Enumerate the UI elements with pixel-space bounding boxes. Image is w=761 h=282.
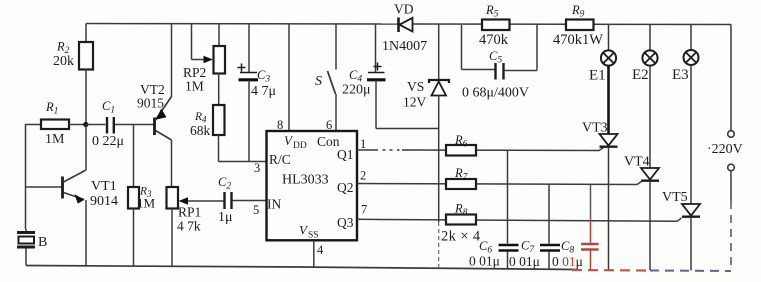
thyristor VT5 bbox=[662, 65, 700, 271]
resistor R3 1M bbox=[128, 125, 156, 267]
svg-text:4 7k: 4 7k bbox=[177, 219, 201, 234]
svg-text:C2: C2 bbox=[218, 175, 231, 192]
svg-text:4 7μ: 4 7μ bbox=[251, 84, 276, 99]
diode VD 1N4007 bbox=[382, 2, 427, 55]
potentiometer RP2 1M bbox=[183, 24, 225, 106]
svg-text:0 01μ: 0 01μ bbox=[469, 254, 500, 269]
svg-text:Q3: Q3 bbox=[337, 215, 354, 230]
wire Q1 to VT3 gate bbox=[357, 148, 604, 151]
svg-text:0 01μ: 0 01μ bbox=[552, 254, 583, 269]
svg-text:·220V: ·220V bbox=[707, 142, 743, 157]
pin 1 label bbox=[360, 137, 366, 151]
svg-text:2: 2 bbox=[360, 169, 366, 183]
thyristor VT3 bbox=[582, 66, 618, 270]
pin 2 label bbox=[360, 169, 366, 183]
resistor R8 bbox=[441, 202, 481, 245]
thyristor VT4 bbox=[624, 66, 659, 270]
wire C4 negative to VS branch bbox=[376, 128, 439, 130]
svg-text:3: 3 bbox=[254, 161, 260, 175]
svg-text:7: 7 bbox=[361, 203, 367, 217]
svg-text:VT3: VT3 bbox=[582, 121, 608, 136]
svg-text:1N4007: 1N4007 bbox=[382, 39, 427, 54]
svg-text:R1: R1 bbox=[45, 100, 58, 117]
svg-text:C3: C3 bbox=[257, 68, 270, 85]
pin 8 (VDD) wire bbox=[277, 24, 289, 133]
svg-text:VD: VD bbox=[394, 2, 414, 17]
capacitor C5 0.68u/400V bbox=[462, 25, 538, 101]
lamp E2 bbox=[632, 24, 658, 83]
IC U1 HL3033 bbox=[253, 131, 357, 241]
svg-text:SS: SS bbox=[308, 231, 319, 241]
resistor R9 470k 1W bbox=[553, 3, 603, 48]
svg-text:B: B bbox=[38, 235, 47, 250]
capacitor C1 0.22u bbox=[86, 99, 154, 149]
svg-text:R/C: R/C bbox=[269, 152, 291, 167]
svg-text:1μ: 1μ bbox=[218, 210, 233, 225]
resistor R4 68k bbox=[190, 105, 225, 162]
resistor R1 1M bbox=[41, 100, 85, 147]
wire R4/C3 to pin 3 bbox=[219, 161, 267, 163]
svg-text:RP1: RP1 bbox=[178, 205, 201, 220]
capacitor C7 0.01u bbox=[509, 185, 560, 270]
svg-text:20k: 20k bbox=[53, 54, 74, 69]
wire top supply rail bbox=[86, 24, 731, 25]
transistor VT1 9014 bbox=[63, 125, 119, 266]
svg-text:4: 4 bbox=[317, 243, 324, 257]
svg-text:E1: E1 bbox=[589, 68, 606, 84]
resistor R2 20k bbox=[53, 24, 93, 125]
svg-text:Q2: Q2 bbox=[337, 180, 354, 195]
svg-text:1: 1 bbox=[360, 137, 366, 151]
svg-text:S: S bbox=[315, 74, 322, 89]
svg-text:E2: E2 bbox=[632, 67, 649, 83]
capacitor C3 4.7u electrolytic bbox=[238, 24, 277, 162]
svg-text:220μ: 220μ bbox=[342, 83, 371, 98]
transistor VT2 9015 bbox=[137, 24, 172, 188]
svg-text:R5: R5 bbox=[485, 3, 499, 20]
svg-text:C7: C7 bbox=[521, 239, 535, 256]
svg-text:1M: 1M bbox=[45, 132, 65, 147]
capacitor C4 220u electrolytic bbox=[342, 24, 386, 129]
svg-text:12V: 12V bbox=[403, 95, 427, 110]
svg-text:68k: 68k bbox=[190, 123, 211, 138]
AC 220V input terminals bbox=[707, 25, 743, 271]
svg-text:0 01μ: 0 01μ bbox=[509, 254, 540, 269]
svg-text:2k × 4: 2k × 4 bbox=[441, 229, 481, 245]
pin 4 (VSS) wire bbox=[314, 241, 324, 269]
wire left column (R1 left / VT1 base / B) bbox=[26, 124, 62, 229]
zener diode VS 12V bbox=[403, 24, 449, 269]
svg-text:R9: R9 bbox=[571, 3, 585, 20]
svg-text:VT1: VT1 bbox=[91, 179, 117, 194]
resistor R7 bbox=[446, 166, 476, 189]
svg-text:9014: 9014 bbox=[90, 194, 118, 209]
capacitor C2 1u bbox=[218, 175, 267, 225]
svg-text:Q1: Q1 bbox=[337, 147, 354, 162]
wire Q3 to VT5 gate bbox=[357, 218, 682, 221]
node junction dot (R1/R2/C1/VT1) bbox=[83, 122, 88, 127]
ground rail (bottom) bbox=[26, 266, 731, 272]
svg-text:0 22μ: 0 22μ bbox=[92, 134, 124, 149]
lamp E1 bbox=[589, 24, 616, 84]
pin 7 label bbox=[361, 203, 367, 217]
resistor R5 470k bbox=[479, 3, 510, 48]
wire Q2 to VT4 gate bbox=[357, 182, 642, 185]
piezo element B bbox=[17, 229, 47, 266]
lamp E3 bbox=[672, 25, 699, 84]
svg-text:470k: 470k bbox=[479, 32, 509, 48]
svg-text:1M: 1M bbox=[137, 196, 156, 211]
svg-text:9015: 9015 bbox=[137, 96, 164, 111]
svg-text:VT5: VT5 bbox=[662, 190, 688, 205]
capacitor C8 0.01u (red) bbox=[552, 185, 599, 270]
svg-text:E3: E3 bbox=[672, 67, 689, 83]
svg-text:5: 5 bbox=[253, 203, 259, 217]
svg-text:0 68μ/400V: 0 68μ/400V bbox=[462, 86, 529, 101]
svg-text:DD: DD bbox=[293, 141, 307, 151]
svg-text:VT4: VT4 bbox=[624, 155, 650, 170]
potentiometer RP1 4.7k bbox=[167, 187, 225, 266]
svg-text:470k1W: 470k1W bbox=[553, 32, 603, 48]
capacitor C6 0.01u bbox=[469, 150, 519, 269]
svg-text:HL3033: HL3033 bbox=[282, 173, 329, 188]
svg-text:C1: C1 bbox=[102, 99, 115, 116]
switch S bbox=[315, 24, 336, 133]
resistor R6 bbox=[446, 133, 476, 156]
svg-text:1M: 1M bbox=[185, 79, 204, 94]
svg-text:IN: IN bbox=[267, 197, 281, 212]
svg-text:VS: VS bbox=[407, 79, 424, 94]
